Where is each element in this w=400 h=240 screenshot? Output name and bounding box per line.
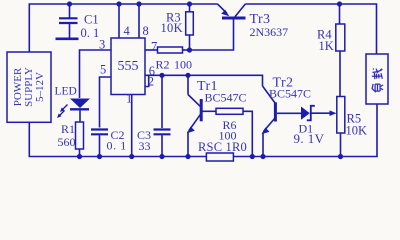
svg-text:555: 555 (118, 59, 139, 74)
wire pin8 (138, 4, 140, 38)
node dot C1 on V+ rail (67, 1, 72, 6)
wire junction to Tr3 base (190, 19, 234, 50)
resistor R2 (158, 47, 190, 53)
node dot R1 on bottom rail (77, 154, 82, 159)
svg-text:0. 1: 0. 1 (107, 139, 127, 153)
load box (negative-load 负载) (366, 54, 388, 104)
node dot C3 on bottom rail (159, 154, 164, 159)
transistor Tr1 (NPN BC547C) (187, 75, 201, 156)
transistor Tr2 (NPN BC547C) (262, 86, 276, 157)
svg-text:8: 8 (143, 24, 149, 38)
node dot R4 on collector rail (337, 1, 342, 6)
svg-text:R2: R2 (156, 58, 170, 72)
IC 555 U1 (111, 38, 145, 95)
capacitor C1 (56, 4, 79, 39)
node dot R6 on bottom rail (250, 154, 255, 159)
capacitor C3 (154, 130, 171, 157)
capacitor C2 (91, 130, 108, 157)
wire bottom rail (29, 104, 377, 157)
svg-text:1K: 1K (319, 39, 334, 53)
wire pin7 to R2 (145, 49, 158, 51)
node dot R3 on V+ rail (187, 1, 192, 6)
resistor R1 (76, 122, 84, 157)
svg-text:RSC 1R0: RSC 1R0 (198, 140, 247, 154)
svg-text:0. 1: 0. 1 (81, 26, 100, 40)
svg-text:7: 7 (151, 40, 157, 54)
node dot pin8 on V+ rail (136, 1, 141, 6)
wire top rail right segment (245, 4, 376, 54)
svg-text:5–12V: 5–12V (34, 72, 46, 102)
zener diode D1 (301, 106, 337, 121)
svg-text:2N3637: 2N3637 (250, 25, 289, 39)
wire pin4 (118, 4, 120, 38)
node dot Tr1 emitter on bottom rail (185, 154, 190, 159)
LED emission arrow 2 (57, 111, 65, 119)
svg-text:100: 100 (174, 58, 192, 72)
resistor R4 (336, 4, 345, 97)
wire pin5 to C2 (100, 77, 112, 128)
transistor Tr3 (PNP 2N3637) (218, 4, 246, 18)
wire Tr2 base to D1 (277, 112, 301, 114)
diode LED D-led (70, 99, 90, 123)
svg-text:C1: C1 (84, 13, 99, 27)
node dot pin4 on V+ rail (116, 1, 121, 6)
node dot pin1 on bottom rail (129, 154, 134, 159)
wire pin6/pin2 net (145, 75, 263, 128)
svg-text:10K: 10K (161, 21, 183, 35)
svg-text:9. 1V: 9. 1V (294, 131, 325, 146)
wire pin1 to bottom rail (131, 95, 133, 157)
resistor R3 (186, 4, 194, 50)
svg-text:33: 33 (139, 139, 151, 153)
svg-text:R1: R1 (61, 122, 75, 136)
svg-text:BC547C: BC547C (269, 87, 311, 101)
svg-text:10K: 10K (346, 124, 368, 138)
node dot Tr1 collector junction (185, 73, 190, 78)
svg-text:560: 560 (58, 135, 76, 149)
svg-text:BC547C: BC547C (205, 91, 247, 105)
node dot C3 junction (159, 73, 164, 78)
node dot C2 on bottom rail (97, 154, 102, 159)
svg-text:4: 4 (124, 24, 131, 38)
svg-text:LED: LED (55, 86, 77, 98)
potentiometer R5 (337, 97, 345, 157)
LED emission arrow 1 (60, 105, 68, 113)
hanzi 载 (rotated) (372, 69, 382, 80)
resistor R6 (203, 108, 253, 156)
node R2/R3/Tr3-base junction (187, 47, 192, 52)
wire pin3 to LED (80, 50, 112, 98)
resistor RSC 1R0 (206, 153, 233, 161)
svg-text:5: 5 (100, 63, 106, 77)
wire top rail left segment (29, 4, 217, 52)
node dot R5 on bottom rail (338, 154, 343, 159)
hanzi 负 (rotated) (372, 84, 383, 92)
power supply box (7, 52, 51, 122)
node dot Tr2 emitter on bottom rail (260, 154, 265, 159)
